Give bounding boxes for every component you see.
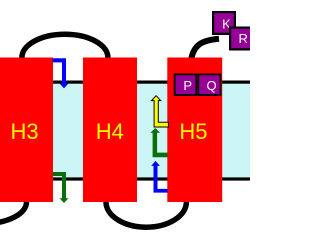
svg-text:H3: H3 bbox=[11, 119, 39, 144]
helix H4 bbox=[83, 58, 137, 203]
membrane top line bbox=[0, 81, 250, 84]
helix H5 bbox=[167, 58, 222, 203]
loop H2-H3 bottom (cut at left edge) bbox=[0, 202, 27, 224]
residue box Q bbox=[198, 74, 220, 95]
green L-arrow (middle, in membrane) bbox=[150, 128, 168, 157]
membrane bottom line bbox=[0, 177, 250, 180]
blue arrow top-left (down into membrane) bbox=[53, 58, 69, 88]
loop H5 to K/R tail bbox=[191, 39, 219, 59]
svg-text:R: R bbox=[239, 31, 248, 46]
loop H4-H5 bottom bbox=[106, 202, 186, 227]
residue box P bbox=[175, 74, 197, 95]
green arrow bottom-left (down out of membrane) bbox=[53, 172, 69, 203]
svg-text:H5: H5 bbox=[179, 119, 207, 144]
svg-text:H4: H4 bbox=[96, 119, 124, 144]
yellow L-arrow (top, in membrane) bbox=[151, 96, 168, 127]
svg-text:P: P bbox=[183, 78, 192, 93]
residue box R bbox=[230, 28, 252, 50]
membrane band bbox=[0, 84, 250, 178]
residue box K bbox=[213, 12, 235, 34]
loop H3-H4 top bbox=[22, 34, 108, 57]
svg-text:Q: Q bbox=[206, 78, 216, 93]
blue L-arrow (bottom, crossing membrane) bbox=[151, 161, 168, 193]
helix H3 bbox=[0, 58, 53, 203]
